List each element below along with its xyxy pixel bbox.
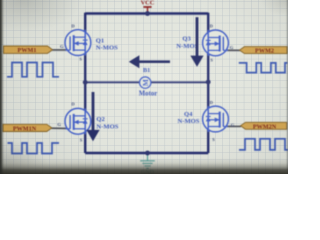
port PWM1N xyxy=(3,124,52,132)
port PWM2N xyxy=(241,122,287,130)
svg-text:Q3: Q3 xyxy=(182,35,191,42)
svg-text:Q1: Q1 xyxy=(96,37,104,44)
junction motor wire / left column (node A) xyxy=(83,80,88,85)
photo vignette overlay xyxy=(0,0,288,174)
junction VCC / top rail xyxy=(145,11,150,16)
svg-text:G: G xyxy=(57,122,61,127)
waveform PWM1 xyxy=(7,63,59,77)
svg-text:PWM2N: PWM2N xyxy=(253,123,277,130)
svg-text:S: S xyxy=(79,57,82,62)
wire top rail VCC xyxy=(85,12,208,15)
wire right column (Q3 drain to Q4 source branch) xyxy=(207,13,209,153)
svg-text:PWM2: PWM2 xyxy=(255,48,274,55)
svg-text:N-MOS: N-MOS xyxy=(96,45,118,52)
power VCC xyxy=(143,7,151,14)
svg-text:PWM1N: PWM1N xyxy=(13,125,37,132)
svg-text:PWM1: PWM1 xyxy=(18,47,37,54)
wire PWM1 to Q1 gate xyxy=(50,49,67,51)
svg-text:GND: GND xyxy=(141,170,155,174)
transistor Q3 N-MOS (mirrored) xyxy=(203,30,229,56)
svg-text:Q2: Q2 xyxy=(96,116,105,123)
wire bottom rail GND xyxy=(85,152,208,154)
junction GND / bottom rail xyxy=(145,151,150,156)
waveform PWM2N xyxy=(239,139,288,150)
waveform PWM1N xyxy=(8,143,60,154)
annotation arrow current direction (motor, pointing left) xyxy=(129,55,170,68)
junction motor wire / right column (node B) xyxy=(206,80,211,85)
svg-text:N-MOS: N-MOS xyxy=(96,123,118,130)
svg-text:D: D xyxy=(210,23,214,28)
svg-text:N-MOS: N-MOS xyxy=(176,43,198,50)
svg-text:S: S xyxy=(210,57,213,62)
svg-text:D: D xyxy=(71,23,75,28)
grid background xyxy=(0,0,288,174)
waveform PWM2 xyxy=(239,63,288,73)
annotation arrow current direction (Q2 branch, pointing down) xyxy=(86,92,99,141)
transistor Q2 N-MOS xyxy=(65,108,91,134)
svg-text:Q4: Q4 xyxy=(184,111,193,118)
svg-text:S: S xyxy=(212,137,215,142)
port PWM2 xyxy=(240,47,288,55)
svg-text:B1: B1 xyxy=(143,67,150,74)
wire PWM2 to Q3 gate xyxy=(227,49,240,51)
wire left column (Q1 drain to Q2 source branch) xyxy=(84,13,86,153)
svg-text:S: S xyxy=(80,138,83,143)
svg-text:D: D xyxy=(210,100,214,105)
svg-text:G: G xyxy=(230,45,234,50)
transistor Q1 N-MOS xyxy=(65,30,91,56)
svg-text:N-MOS: N-MOS xyxy=(178,118,200,125)
svg-text:G: G xyxy=(231,123,235,128)
wire PWM1N to Q2 gate xyxy=(51,127,67,129)
svg-text:VCC: VCC xyxy=(141,0,155,7)
svg-text:D: D xyxy=(71,102,75,107)
svg-text:Motor: Motor xyxy=(139,90,158,97)
wire motor bridge (node A to node B) xyxy=(85,81,208,83)
svg-text:M: M xyxy=(141,79,150,86)
wire PWM2N to Q4 gate xyxy=(227,125,241,127)
ground GND xyxy=(140,153,155,168)
annotation arrow current direction (Q3 branch, pointing down) xyxy=(190,17,203,67)
motor B1 xyxy=(140,77,151,88)
transistor Q4 N-MOS (mirrored) xyxy=(203,106,229,132)
svg-text:G: G xyxy=(60,44,64,49)
port PWM1 xyxy=(4,46,53,54)
